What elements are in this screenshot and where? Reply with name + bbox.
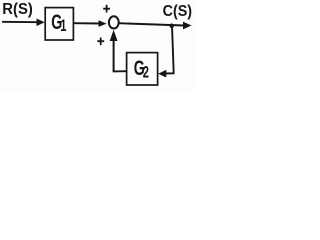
arrowhead into summing junction bottom [110, 30, 118, 41]
summing junction [109, 16, 119, 28]
background paper [0, 0, 195, 92]
wire G1 to summing junction [73, 22, 100, 24]
svg-text:C(S): C(S) [163, 3, 193, 20]
plus sign top [103, 5, 110, 13]
wire summing junction to C(S) output [118, 23, 184, 25]
arrowhead output C(S) [183, 22, 192, 30]
wire right corner to G2 input [166, 72, 175, 74]
wire up to summing junction [113, 41, 115, 72]
plus sign bottom [97, 38, 104, 46]
label G1 [51, 10, 66, 36]
svg-text:1: 1 [60, 17, 66, 36]
arrowhead into G1 [37, 19, 45, 27]
wire input R(S) to G1 [2, 21, 38, 23]
svg-text:R(S): R(S) [2, 1, 33, 18]
block G1 [45, 8, 73, 40]
node feedback tap junction dot [169, 24, 174, 29]
block G2 [127, 53, 158, 85]
wire G2 output to left [113, 70, 127, 72]
arrowhead into G2 [158, 70, 166, 78]
label G2 [134, 56, 149, 82]
arrowhead into summing junction [99, 20, 107, 27]
svg-text:2: 2 [143, 63, 149, 82]
wire tap down right side [172, 25, 174, 73]
